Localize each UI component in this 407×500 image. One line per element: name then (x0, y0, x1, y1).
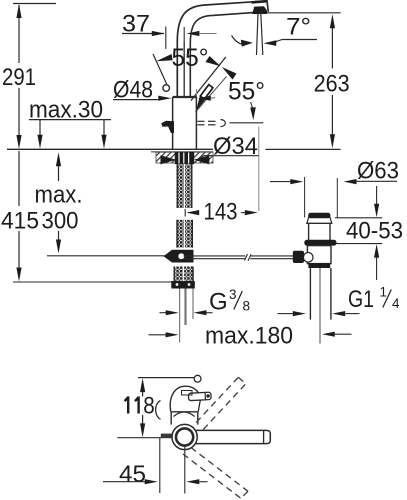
45 ext line left (159, 438, 161, 493)
arrow down 291 at deck (16, 135, 21, 149)
118 top tick (138, 377, 195, 379)
118 bottom tick (117, 437, 161, 439)
dashed pop-up rod (198, 121, 216, 125)
arrow down max300 (56, 240, 61, 254)
deck hatch right (193, 152, 214, 163)
143 arrow left (186, 210, 199, 215)
diam34 leader (198, 156, 204, 160)
55-2 lever rhombus (200, 85, 213, 100)
diam34 underline (204, 155, 259, 157)
spout tip extension line (258, 127, 260, 212)
left handle arc (156, 401, 161, 420)
37 dim line (122, 33, 164, 35)
svg-text:Ø63: Ø63 (357, 158, 399, 185)
notch (161, 434, 172, 439)
braided hoses (176, 220, 193, 248)
40-53 arrows (376, 186, 378, 205)
svg-text:300: 300 (42, 208, 79, 235)
side handle blob (161, 121, 174, 127)
deck hatch left (156, 152, 177, 163)
263 top tick (267, 12, 341, 14)
svg-text:143: 143 (204, 199, 238, 226)
dim max.300 vertical line (58, 165, 60, 242)
45 ext line right (184, 446, 186, 494)
arrow down 415 (16, 268, 21, 282)
55-2 arrowhead (196, 96, 205, 111)
drain flange (304, 240, 336, 246)
max.30 arrow right (101, 135, 106, 149)
diam63 underline (352, 180, 397, 182)
143 arrow right (245, 210, 258, 215)
drain neck (308, 223, 310, 240)
svg-text:8: 8 (143, 393, 155, 420)
diam63 arrows (270, 181, 291, 183)
drain body (307, 246, 331, 264)
svg-text:1: 1 (380, 285, 388, 300)
7deg arc arrowhead (241, 40, 253, 47)
max.30 arrow left (37, 135, 42, 149)
threaded shank (177, 164, 193, 208)
max.30 stems (39, 120, 41, 137)
spout center line (183, 42, 185, 97)
small knob circle (194, 375, 201, 382)
37 tick right (183, 27, 185, 42)
svg-text:max.180: max.180 (205, 323, 293, 350)
37 arrow tail (199, 33, 217, 35)
svg-text:3: 3 (229, 287, 237, 302)
max180 left arrow (149, 334, 167, 336)
top view body dome (170, 386, 200, 412)
max.30 underline (29, 119, 111, 121)
svg-text:7°: 7° (286, 14, 311, 41)
263 deck tick (266, 148, 341, 150)
7deg arc (232, 36, 247, 45)
drain plug cap (307, 214, 332, 223)
55 left lever line (153, 54, 167, 84)
7deg arrow (264, 40, 277, 46)
118 dim line (140, 378, 145, 392)
svg-text:40-53: 40-53 (346, 218, 403, 245)
45 dim line (103, 481, 146, 483)
drain bottom band (308, 263, 330, 268)
diam48 underline (113, 99, 158, 101)
hose tails (179, 289, 181, 343)
263 line (331, 27, 333, 69)
svg-text:55°: 55° (172, 44, 209, 72)
svg-text:G: G (209, 289, 228, 316)
55-2 leader line (196, 77, 227, 113)
rod knob (293, 251, 304, 263)
side opening circle (303, 252, 313, 262)
dome inner detail (182, 391, 193, 396)
55 left lever knob (163, 85, 170, 92)
diam63 ext lines (304, 177, 306, 218)
diam48 right tail (211, 97, 215, 100)
spout outer profile (177, 1, 268, 97)
37 tick left (165, 27, 167, 50)
7deg underline (282, 39, 317, 41)
body (173, 97, 197, 149)
G1 1/4 arrows (278, 313, 294, 315)
spout bar (193, 430, 270, 443)
inner arc (174, 412, 195, 417)
55-2 right leader (251, 102, 253, 108)
svg-text:291: 291 (2, 64, 36, 91)
upper dashed lever (196, 377, 246, 429)
pivot circles (172, 424, 197, 449)
spout inner profile (190, 13, 253, 97)
diam48 arrow left-pointing (198, 96, 211, 101)
arrow up max300 at deck (56, 152, 61, 166)
dim 291/415 vertical line (18, 5, 20, 269)
arrow up 291 (16, 4, 21, 18)
svg-text:55°: 55° (228, 78, 265, 106)
40-53 ticks (335, 217, 382, 219)
label 118 (125, 398, 129, 414)
black nuts (171, 281, 195, 289)
hose pair arrows (160, 312, 167, 314)
max180 right arrow (322, 332, 335, 337)
55 right lever line (191, 57, 226, 101)
diam48 arrow right (158, 96, 171, 101)
max300 bottom tick (47, 255, 167, 257)
415 bottom tick (13, 281, 178, 283)
svg-text:G1: G1 (348, 286, 374, 313)
pop-up rod horizontal (184, 254, 294, 261)
svg-text:45: 45 (119, 461, 146, 488)
diam34 arrow left (161, 155, 177, 164)
dim 291/415 top tick (13, 3, 56, 5)
water stream (257, 13, 259, 55)
braided nuts (174, 267, 194, 282)
dim 143 tick (184, 209, 186, 217)
55-2 body edge ext (196, 89, 198, 115)
diam34 arrow right (194, 155, 210, 164)
svg-text:8: 8 (243, 299, 251, 314)
rod solid line (230, 122, 264, 124)
cross fitting (164, 250, 194, 263)
55 bowtie wedge upper (206, 56, 221, 66)
tailpipe (309, 268, 311, 320)
rod end bracket (221, 120, 226, 127)
svg-text:max.: max. (35, 182, 83, 209)
7deg leader (276, 40, 282, 42)
37 arrow left-pointing (186, 31, 199, 36)
svg-text:415: 415 (1, 208, 39, 235)
55 left arrowhead (156, 54, 172, 61)
deck second line (151, 151, 213, 153)
lower dashed lever (183, 447, 248, 498)
svg-text:263: 263 (314, 71, 350, 98)
37 arrow right (152, 31, 165, 36)
55-2 down arrow (250, 107, 256, 120)
55 bowtie wedge lower (222, 67, 237, 80)
lever nub (188, 392, 211, 401)
aerator (252, 6, 267, 14)
top view body rect (171, 412, 198, 425)
deck line (7, 148, 213, 150)
svg-text:4: 4 (392, 296, 400, 311)
shank black through deck (175, 152, 194, 164)
